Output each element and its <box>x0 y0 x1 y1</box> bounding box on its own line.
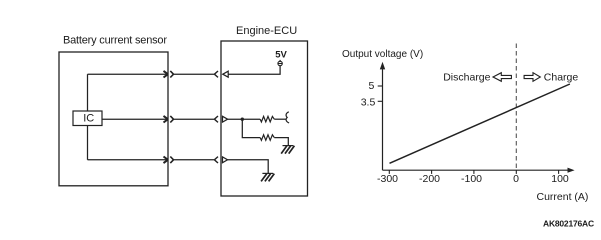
resistor R2 (pull-down branch) <box>260 135 274 141</box>
x tick labels <box>377 173 569 185</box>
block arrow left (discharge) <box>493 73 511 82</box>
pin triangle: ECU bottom (points right) <box>223 157 228 163</box>
svg-text:Output voltage (V): Output voltage (V) <box>342 49 423 60</box>
output characteristic line <box>390 84 570 163</box>
wire: sensor top wire <box>88 73 169 75</box>
ground G1 <box>281 146 294 154</box>
svg-text:-200: -200 <box>419 173 440 185</box>
connector arrow: sensor wall top (male, filled chevron) <box>164 71 168 78</box>
block arrow right (charge) <box>524 73 540 82</box>
wire: harness bottom <box>174 159 215 161</box>
svg-text:Battery current sensor: Battery current sensor <box>63 35 167 47</box>
svg-text:-300: -300 <box>377 173 398 185</box>
connector chevron: harness side top <box>170 71 173 78</box>
svg-text:Discharge: Discharge <box>443 71 490 83</box>
pin triangle: ECU top (points left, 5V output) <box>223 71 228 77</box>
wire: IC output to wall (middle) <box>102 118 168 120</box>
connector fork: ECU wall bottom <box>214 157 218 163</box>
svg-text:Charge: Charge <box>544 71 579 83</box>
svg-text:IC: IC <box>83 113 94 125</box>
connector chevron: harness side bottom <box>170 157 173 164</box>
continuation brace <box>286 112 289 123</box>
x ticks <box>389 170 558 174</box>
engine ECU box <box>221 41 308 196</box>
svg-text:Current (A): Current (A) <box>537 191 589 203</box>
wire: R2 to ground <box>274 138 288 146</box>
svg-text:0: 0 <box>513 173 519 185</box>
svg-text:AK802176AC: AK802176AC <box>543 219 594 229</box>
dashed zero-current line <box>515 44 517 170</box>
svg-text:5V: 5V <box>275 49 287 60</box>
wire: harness middle <box>174 118 215 120</box>
wire: sensor internal vertical bus <box>87 74 89 160</box>
wire: R1 to continuation <box>274 118 286 120</box>
IC U1 box <box>73 111 102 126</box>
svg-text:100: 100 <box>551 173 569 185</box>
wire: middle signal into ECU <box>228 118 261 120</box>
wire: harness top <box>174 73 215 75</box>
wire: sensor bottom wire <box>88 159 169 161</box>
svg-text:Engine-ECU: Engine-ECU <box>236 25 297 37</box>
wire: bottom ground return inside ECU <box>228 160 269 173</box>
connector fork: ECU wall top <box>214 71 218 77</box>
connector arrow: sensor wall bottom <box>164 157 168 164</box>
svg-text:-100: -100 <box>461 173 482 185</box>
x-axis <box>383 169 569 171</box>
connector chevron: harness side middle <box>170 116 173 123</box>
y-axis <box>382 68 384 171</box>
y tick 3.5 <box>378 100 383 102</box>
svg-text:3.5: 3.5 <box>361 97 376 109</box>
pin triangle: ECU middle (points right, signal input) <box>223 116 228 122</box>
junction node <box>241 118 244 121</box>
ground G2 <box>261 173 274 181</box>
wire: 5V feed inside ECU <box>228 66 280 74</box>
battery current sensor box <box>59 52 168 186</box>
wire: junction down to R2 <box>242 119 260 137</box>
connector fork: ECU wall middle <box>214 116 218 122</box>
connector arrow: sensor wall middle <box>164 116 168 123</box>
resistor R1 (pull-up branch) <box>260 116 274 122</box>
y tick 5 <box>378 85 383 87</box>
5V terminal circle <box>279 60 281 62</box>
svg-text:5: 5 <box>368 80 374 92</box>
